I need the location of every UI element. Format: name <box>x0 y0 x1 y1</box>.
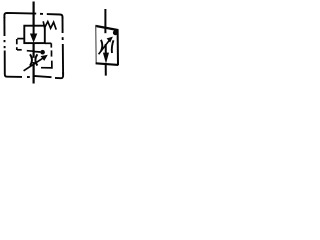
enclosure chain-line box: bottom edge <box>27 73 63 79</box>
wire: main line between square and throttle <box>32 43 34 58</box>
wire: outlet line (bottom stub) <box>105 64 107 76</box>
stub to plug <box>33 51 40 54</box>
wire: main flow line (top inlet) <box>32 2 34 27</box>
spring zigzag <box>43 21 56 29</box>
adjustment arrow (diagonal) <box>24 57 44 70</box>
wire: main line below throttle <box>32 62 34 84</box>
valve square <box>24 26 45 43</box>
body rectangle <box>95 25 118 65</box>
spring-side pilot drain (dashed) <box>41 43 52 68</box>
pilot line left loop (dashed) <box>17 39 34 52</box>
arrow inside valve square (down) <box>33 26 35 36</box>
vent stub + plug dot (right figure) <box>116 31 118 33</box>
flow line stub inside body <box>104 28 106 34</box>
plug dot <box>40 50 45 55</box>
throttle arcs (right figure) <box>101 40 102 51</box>
enclosure chain-line box: left edge <box>4 17 22 77</box>
wire: inlet line (top stub) <box>104 9 106 27</box>
enclosure chain-line box: right edge <box>62 17 65 75</box>
enclosure chain-line box: top edge <box>4 13 62 19</box>
adjustment arrow (diagonal, right figure) <box>99 41 109 54</box>
flow arrow (down) <box>105 44 107 55</box>
throttle arcs <box>30 54 32 65</box>
